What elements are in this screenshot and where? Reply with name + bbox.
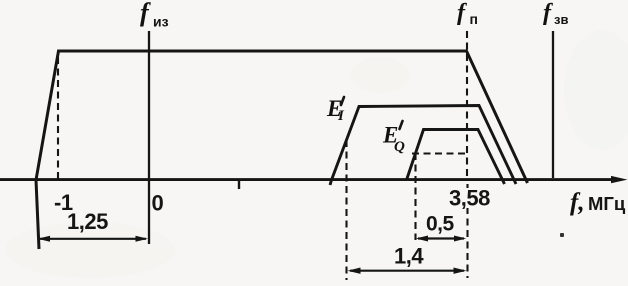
axis tick at 2 MHz [238,179,240,189]
dimension arrow 0,5 [418,237,464,239]
svg-text:I: I [337,108,345,124]
chroma Q trapezoid E'_Q [407,130,505,185]
svg-text:зв: зв [554,12,568,27]
dashed horizontal level line of Q band [412,152,466,154]
svg-text:МГц: МГц [588,193,626,214]
label 3,58 (on white patch over dashed line) [449,188,491,208]
svg-text:1,25: 1,25 [67,209,108,234]
svg-text:3,58: 3,58 [449,186,490,211]
dashed line at -1 MHz [57,53,59,179]
frequency axis f [0,178,616,181]
vertical line f_из [148,31,150,244]
axis arrowhead [611,176,628,183]
dimension arrow 1,4 [350,270,464,272]
dashed extension line at left edge of chroma band (1,4 dimension) [345,140,347,280]
svg-text:1,4: 1,4 [394,244,424,269]
chroma I trapezoid E'_I [330,106,516,186]
svg-text:0: 0 [152,191,164,216]
ink speck artifact [560,233,564,237]
dimension arrow 1,25 [40,238,146,240]
dashed extension line at left edge of Q band (0,5 dimension) [414,153,416,240]
vertical line f_зв (sound carrier) [552,31,554,178]
svg-text:0,5: 0,5 [426,213,455,236]
dashed vertical line f_п / 3,58 MHz [466,31,468,179]
svg-text:Q: Q [394,139,405,155]
svg-text:п: п [470,11,478,27]
svg-text:из: из [153,14,169,30]
svg-text:f,: f, [570,189,585,216]
main video spectrum trapezoid (with left extension below axis) [36,51,528,249]
